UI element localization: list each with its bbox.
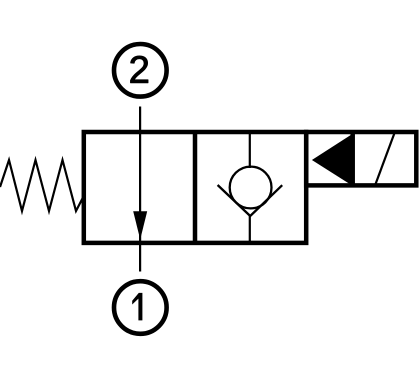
solenoid armature triangle	[312, 134, 353, 186]
valve body (two-position envelope)	[84, 132, 306, 243]
check valve upper wire	[249, 132, 251, 168]
check valve lower wire	[249, 215, 251, 243]
port 2 circle	[114, 44, 167, 97]
spring	[0, 160, 84, 211]
port 2 label	[131, 56, 148, 83]
port 1 circle	[114, 281, 167, 334]
port 1 label	[132, 293, 142, 321]
solenoid box	[306, 132, 416, 185]
check valve seat (V)	[218, 185, 283, 216]
proportional adjustment diagonal	[375, 133, 395, 186]
solenoid divider	[350, 132, 355, 185]
check valve ball C1	[230, 167, 272, 209]
position divider	[193, 132, 198, 243]
wire (port 2 to port 1 flow path)	[139, 107, 141, 272]
arrowhead (flow direction down)	[133, 211, 147, 239]
